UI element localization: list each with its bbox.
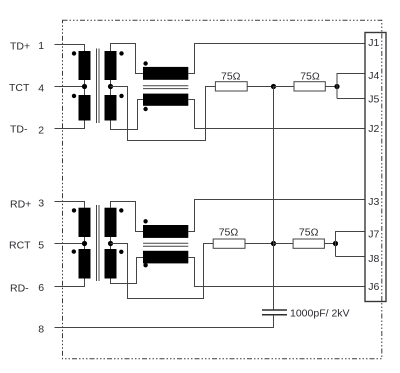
svg-text:J3: J3 bbox=[368, 196, 379, 208]
wire R1 to node A bbox=[247, 86, 273, 88]
phase dot T1 secondary lower bbox=[119, 94, 123, 98]
pin number 6 bbox=[38, 282, 44, 294]
pin label RD+ bbox=[10, 199, 31, 211]
pin label TD+ bbox=[10, 40, 30, 52]
connector pin J3 bbox=[368, 196, 379, 208]
label C1 value 1000pF/ 2kV bbox=[290, 307, 350, 319]
label R2 75ohm bbox=[300, 70, 320, 82]
connector pin J1 bbox=[368, 37, 379, 49]
svg-text:J7: J7 bbox=[368, 229, 379, 241]
connector pin J8 bbox=[368, 253, 379, 265]
svg-text:3: 3 bbox=[38, 197, 44, 209]
junction T1 primary center tap bbox=[82, 84, 87, 89]
choke L2 lower winding bbox=[143, 251, 188, 264]
wire pin6 RD- to T2 primary bottom bbox=[55, 279, 85, 287]
phase dot L1 lower bbox=[143, 107, 147, 111]
pin number 2 bbox=[38, 124, 44, 136]
wire choke L2 upper to J3 bbox=[188, 200, 365, 232]
svg-text:8: 8 bbox=[38, 323, 44, 335]
core L2 bbox=[143, 243, 188, 246]
connector pin J4 bbox=[368, 70, 379, 82]
pin label RD- bbox=[10, 283, 29, 295]
phase dot T2 primary upper bbox=[72, 208, 76, 212]
node B junction bbox=[271, 241, 276, 246]
wire node A to node B to capacitor C1 bbox=[273, 87, 275, 311]
junction T1 secondary center tap bbox=[108, 84, 113, 89]
wire choke L1 upper to J1 bbox=[188, 44, 365, 74]
transformer T1 secondary upper winding bbox=[105, 51, 117, 80]
resistor R1 75ohm bbox=[215, 82, 247, 91]
junction T2 primary center tap bbox=[82, 241, 87, 246]
resistor R2 75ohm bbox=[294, 82, 325, 91]
transformer T2 secondary lower winding bbox=[105, 249, 117, 279]
svg-text:J2: J2 bbox=[368, 123, 379, 135]
svg-text:75Ω: 75Ω bbox=[300, 70, 320, 82]
wire node B to R4 bbox=[274, 243, 294, 245]
connector J header outline bbox=[365, 33, 386, 302]
transformer T1 primary upper winding bbox=[79, 51, 91, 80]
svg-text:TD+: TD+ bbox=[10, 40, 30, 52]
svg-text:J1: J1 bbox=[368, 37, 379, 49]
transformer T1 secondary lower winding bbox=[105, 95, 117, 121]
pin label RCT bbox=[9, 239, 31, 251]
connector pin J6 bbox=[368, 281, 379, 293]
pin label TCT bbox=[9, 82, 30, 94]
wire pin5 RCT to T2 primary center tap bbox=[55, 243, 85, 245]
transformer T2 primary upper winding bbox=[79, 208, 91, 237]
svg-text:TD-: TD- bbox=[10, 124, 28, 136]
node A junction bbox=[271, 84, 276, 89]
junction T2 secondary center tap bbox=[108, 241, 113, 246]
choke L1 lower winding bbox=[143, 94, 188, 106]
wire tie to J4 and J5 bbox=[337, 74, 365, 99]
core T2 bbox=[97, 205, 100, 281]
wire T1 primary tap link bbox=[84, 80, 86, 95]
wire R3 to node B bbox=[245, 243, 274, 245]
pin label TD- bbox=[10, 124, 28, 136]
choke L1 upper winding bbox=[143, 67, 188, 80]
resistor R3 75ohm bbox=[213, 239, 245, 248]
svg-text:75Ω: 75Ω bbox=[221, 70, 241, 82]
svg-text:J4: J4 bbox=[368, 70, 379, 82]
phase dot T1 primary lower bbox=[72, 94, 76, 98]
wire T1 secondary bottom to choke L1 lower bbox=[111, 100, 144, 130]
phase dot T2 secondary upper bbox=[119, 208, 123, 212]
svg-text:TCT: TCT bbox=[9, 82, 30, 94]
phase dot T2 secondary lower bbox=[119, 250, 123, 254]
wire R2 to J4 J5 junction bbox=[325, 86, 337, 88]
wire T2 primary tap link bbox=[84, 237, 86, 249]
pin number 1 bbox=[38, 40, 44, 52]
phase dot L1 upper bbox=[143, 61, 147, 65]
wire capacitor C1 to pin8 bbox=[55, 315, 274, 328]
phase dot T1 primary upper bbox=[72, 51, 76, 55]
svg-text:J5: J5 bbox=[368, 93, 379, 105]
svg-text:6: 6 bbox=[38, 282, 44, 294]
transformer T1 primary lower winding bbox=[79, 95, 91, 121]
wire pin4 TCT to T1 primary center tap bbox=[55, 86, 85, 88]
svg-text:4: 4 bbox=[38, 82, 44, 94]
transformer T2 primary lower winding bbox=[79, 249, 91, 279]
capacitor C1 1000pF 2kV bbox=[262, 310, 287, 315]
svg-text:J8: J8 bbox=[368, 253, 379, 265]
module dashed outline bbox=[63, 20, 382, 358]
svg-text:J6: J6 bbox=[368, 281, 379, 293]
junction J4 J5 tie bbox=[334, 84, 339, 89]
wire choke L2 lower to J6 bbox=[188, 258, 365, 287]
core L1 bbox=[143, 86, 188, 89]
wire T1 secondary top to choke L1 upper bbox=[111, 44, 144, 74]
wire pin2 TD- to T1 primary bottom bbox=[55, 121, 85, 129]
wire T1 secondary tap to resistor R1 bbox=[111, 87, 216, 141]
wire choke L1 lower to J2 bbox=[188, 100, 365, 129]
wire tie to J7 and J8 bbox=[336, 232, 366, 257]
svg-text:2: 2 bbox=[38, 124, 44, 136]
pin number 8 bbox=[38, 323, 44, 335]
svg-text:RD-: RD- bbox=[10, 283, 29, 295]
resistor R4 75ohm bbox=[293, 239, 324, 248]
wire T2 secondary top to choke L2 upper bbox=[111, 202, 144, 232]
wire pin3 RD+ to T2 primary top bbox=[55, 202, 85, 208]
core T1 bbox=[97, 49, 100, 124]
label R4 75ohm bbox=[299, 226, 319, 238]
connector pin J5 bbox=[368, 93, 379, 105]
wire node A to R2 bbox=[274, 86, 295, 88]
svg-text:75Ω: 75Ω bbox=[299, 226, 319, 238]
svg-text:RD+: RD+ bbox=[10, 199, 31, 211]
wire R4 to J7 J8 junction bbox=[324, 243, 335, 245]
phase dot L2 upper bbox=[143, 219, 147, 223]
phase dot T1 secondary upper bbox=[119, 51, 123, 55]
svg-text:1000pF/ 2kV: 1000pF/ 2kV bbox=[290, 307, 350, 319]
junction J7 J8 tie bbox=[333, 241, 338, 246]
transformer T2 secondary upper winding bbox=[105, 208, 117, 237]
svg-text:RCT: RCT bbox=[9, 239, 31, 251]
label R1 75ohm bbox=[221, 70, 241, 82]
phase dot L2 lower bbox=[143, 263, 147, 267]
svg-text:1: 1 bbox=[38, 40, 44, 52]
pin number 5 bbox=[38, 239, 44, 251]
phase dot T2 primary lower bbox=[72, 249, 76, 253]
pin number 3 bbox=[38, 197, 44, 209]
connector pin J7 bbox=[368, 229, 379, 241]
wire T2 secondary tap to resistor R3 bbox=[111, 244, 214, 299]
choke L2 upper winding bbox=[143, 225, 188, 238]
label R3 75ohm bbox=[219, 226, 239, 238]
wire T2 secondary bottom to choke L2 lower bbox=[111, 258, 144, 284]
connector pin J2 bbox=[368, 123, 379, 135]
svg-text:5: 5 bbox=[38, 239, 44, 251]
wire T2 secondary tap link bbox=[110, 237, 112, 249]
wire T1 secondary tap link bbox=[110, 80, 112, 95]
svg-text:75Ω: 75Ω bbox=[219, 226, 239, 238]
wire pin1 TD+ to T1 primary top bbox=[55, 45, 85, 52]
pin number 4 bbox=[38, 82, 44, 94]
